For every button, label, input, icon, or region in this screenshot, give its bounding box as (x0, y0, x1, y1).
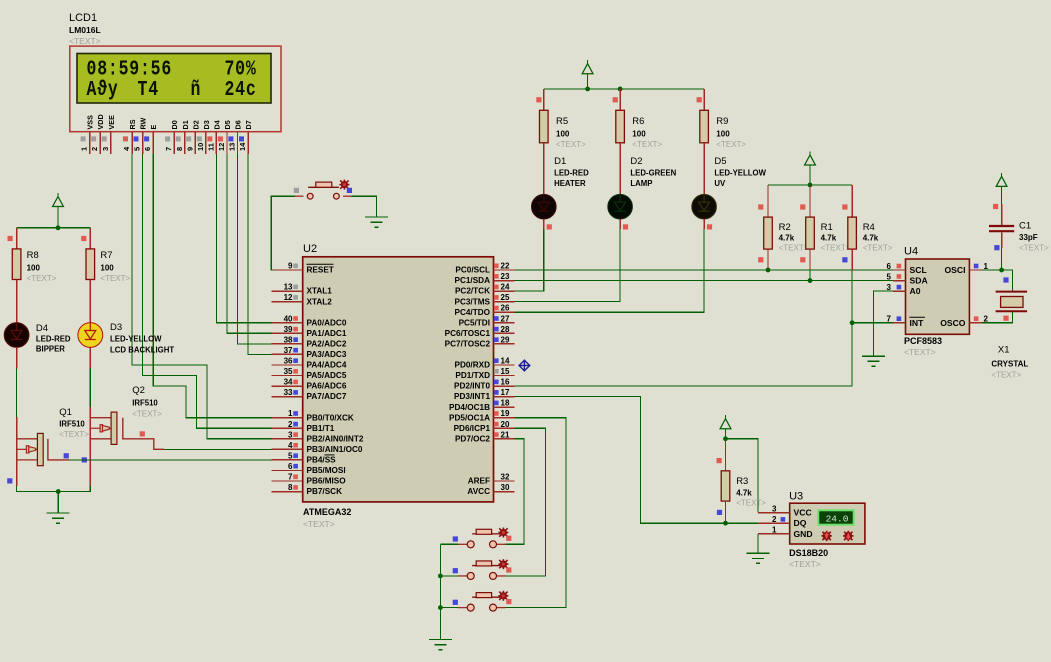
svg-text:R5: R5 (556, 116, 568, 127)
wire R2 rail (768, 184, 852, 186)
U3 up button (843, 531, 853, 541)
svg-text:39: 39 (284, 325, 293, 334)
wire D1 to U2 (515, 229, 544, 291)
svg-text:5: 5 (887, 272, 892, 281)
wire D2 to U2 (515, 229, 621, 302)
svg-text:<TEXT>: <TEXT> (556, 140, 586, 149)
U2 pin 2 PB1/T1 (272, 420, 335, 433)
svg-text:PC5/TDI: PC5/TDI (459, 318, 490, 327)
U3 DS18B20 body (790, 503, 865, 544)
U2 pin 16 PD2/INT0 (454, 378, 515, 391)
svg-text:AVCC: AVCC (467, 487, 490, 496)
resistor R5 (536, 89, 586, 164)
svg-text:R7: R7 (100, 250, 112, 261)
svg-text:U3: U3 (789, 491, 803, 503)
wire Q1/Q2 sources ground rail (17, 486, 91, 492)
svg-text:PC4/TDO: PC4/TDO (455, 308, 491, 317)
svg-text:IRF510: IRF510 (132, 399, 158, 408)
U4 pin 3 A0 (887, 283, 921, 296)
svg-text:A0: A0 (910, 286, 921, 296)
svg-text:40: 40 (284, 314, 293, 323)
wire top VCC rail (544, 88, 704, 90)
svg-text:PA2/ADC2: PA2/ADC2 (307, 339, 347, 348)
svg-text:HEATER: HEATER (554, 179, 586, 188)
resistor R7 (81, 228, 130, 301)
svg-text:D2: D2 (191, 120, 200, 129)
U2 pin 28 PC6/TOSC1 (445, 325, 515, 338)
wire C1 to OSCI node (1001, 248, 1003, 270)
svg-text:13: 13 (228, 143, 237, 151)
svg-text:PB4/SS: PB4/SS (307, 456, 337, 465)
wire button 3 left to common (440, 607, 458, 609)
svg-text:PB5/MOSI: PB5/MOSI (307, 466, 346, 475)
svg-text:BIPPER: BIPPER (36, 345, 65, 354)
svg-text:100: 100 (556, 130, 570, 139)
svg-text:LED-YELLOW: LED-YELLOW (110, 335, 162, 344)
svg-text:6: 6 (887, 262, 892, 271)
svg-text:PA6/ADC6: PA6/ADC6 (307, 382, 347, 391)
svg-text:PC0/SCL: PC0/SCL (455, 266, 490, 275)
svg-text:Aϑy: Aϑy (87, 77, 119, 102)
node rail junction at R6 (618, 87, 623, 92)
svg-text:24c: 24c (225, 77, 257, 102)
svg-text:4.7k: 4.7k (736, 489, 752, 498)
wire button 1 left to common (440, 543, 458, 545)
resistor R6 (613, 89, 663, 164)
svg-text:R9: R9 (716, 116, 728, 127)
LED D5 LED-YELLOW UV (692, 156, 767, 229)
svg-text:PD0/RXD: PD0/RXD (455, 361, 491, 370)
U3 pin 2 DQ (758, 515, 807, 528)
svg-text:SDA: SDA (910, 276, 928, 286)
svg-text:T4: T4 (138, 77, 159, 102)
svg-text:1: 1 (80, 147, 89, 151)
U2 pin 36 PA4/ADC4 (272, 356, 347, 369)
svg-text:<TEXT>: <TEXT> (779, 244, 809, 253)
svg-text:<TEXT>: <TEXT> (132, 410, 162, 419)
svg-text:LM016L: LM016L (69, 25, 101, 35)
svg-text:30: 30 (501, 483, 510, 492)
node Q1 gate marker (64, 453, 69, 458)
svg-text:PB3/AIN1/OC0: PB3/AIN1/OC0 (307, 445, 363, 454)
svg-text:27: 27 (501, 314, 510, 323)
svg-text:26: 26 (501, 304, 510, 313)
U2 pin 7 PB6/MISO (272, 473, 347, 486)
svg-text:12: 12 (217, 143, 226, 151)
svg-text:R6: R6 (632, 116, 644, 127)
svg-text:<TEXT>: <TEXT> (863, 244, 893, 253)
transistor Q1 IRF510 (17, 407, 90, 486)
U2 pin 13 XTAL1 (272, 283, 333, 296)
svg-text:D6: D6 (234, 120, 243, 129)
crystal X1 (991, 292, 1028, 380)
U4 pin 6 SCL (887, 262, 927, 275)
svg-text:16: 16 (501, 378, 510, 387)
U2 pin 29 PC7/TOSC2 (445, 335, 515, 348)
svg-text:6: 6 (288, 462, 293, 471)
svg-text:UV: UV (714, 179, 726, 188)
svg-text:PD3/INT1: PD3/INT1 (454, 392, 490, 401)
svg-text:R8: R8 (27, 250, 39, 261)
node buttons junction 3 (438, 605, 443, 610)
node reset button pin markers (294, 188, 299, 193)
U2 pin 30 AVCC (467, 483, 514, 496)
wire LCD RS (pin4) to U2 PB2 (132, 154, 271, 439)
svg-text:PA5/ADC5: PA5/ADC5 (307, 371, 347, 380)
U3 display 24.0 (817, 509, 854, 525)
node button 3 markers (453, 600, 458, 605)
svg-text:XTAL2: XTAL2 (307, 297, 333, 306)
resistor R1 (800, 185, 851, 281)
svg-text:10: 10 (196, 143, 205, 151)
transistor Q2 IRF510 (90, 385, 164, 486)
U2 pin 1 PB0/T0/XCK (272, 409, 354, 422)
LED D1 LED-RED HEATER (532, 156, 590, 229)
U2 pin 19 PD5/OC1A (449, 409, 515, 422)
U2 pin 18 PD4/OC1B (449, 399, 515, 412)
svg-text:8: 8 (288, 483, 293, 492)
U4 pin 5 SDA (887, 272, 928, 285)
node R3/DQ junction (723, 521, 728, 526)
svg-text:9: 9 (288, 262, 293, 271)
node INT junction (850, 320, 855, 325)
svg-text:PC7/TOSC2: PC7/TOSC2 (445, 339, 491, 348)
U2 pin 17 PD3/INT1 (454, 388, 515, 401)
svg-text:19: 19 (501, 409, 510, 418)
U4 pin 2 OSCO (940, 315, 988, 328)
U2 pin 35 PA5/ADC5 (272, 367, 347, 380)
svg-text:RESET: RESET (307, 266, 334, 275)
capacitor C1 33pF (989, 204, 1049, 253)
power VCC arrow (C1) (996, 173, 1007, 204)
node Q1 source marker (7, 478, 12, 483)
svg-text:VEE: VEE (107, 115, 116, 130)
U2 pin 27 PC5/TDI (459, 314, 515, 327)
node R2/SCL junction (766, 268, 771, 273)
ground (left rail) (47, 492, 70, 524)
LCD pin 13 D6 (228, 120, 243, 154)
svg-text:LAMP: LAMP (630, 179, 652, 188)
svg-text:R2: R2 (779, 222, 791, 233)
svg-text:D1: D1 (181, 120, 190, 129)
U2 pin 32 AREF (468, 473, 515, 486)
svg-text:<TEXT>: <TEXT> (632, 140, 662, 149)
svg-text:38: 38 (284, 335, 293, 344)
wire U4 INT to junction (852, 322, 893, 324)
wire button 2 to U2 pin (506, 428, 546, 576)
svg-text:SCL: SCL (910, 265, 927, 275)
svg-text:12: 12 (284, 293, 293, 302)
svg-text:PB1/T1: PB1/T1 (307, 424, 335, 433)
resistor R9 (697, 89, 747, 164)
svg-text:<TEXT>: <TEXT> (100, 274, 130, 283)
svg-text:GND: GND (794, 529, 813, 539)
svg-text:D5: D5 (223, 120, 232, 129)
LCD screen (77, 54, 271, 104)
node rail/arrow junction (56, 225, 61, 230)
U2 pin 3 PB2/AIN0/INT2 (272, 430, 364, 443)
power VCC arrow (left rail) (53, 193, 64, 228)
svg-text:LED-GREEN: LED-GREEN (630, 169, 676, 178)
svg-text:D7: D7 (244, 120, 253, 129)
svg-text:3: 3 (288, 430, 293, 439)
svg-text:LCD1: LCD1 (69, 12, 97, 24)
svg-text:23: 23 (501, 272, 510, 281)
LCD pin 12 D5 (217, 120, 232, 154)
svg-text:D5: D5 (714, 156, 726, 167)
svg-text:R4: R4 (863, 222, 875, 233)
LED D4 LED-RED BIPPER (4, 301, 71, 369)
svg-text:25: 25 (501, 293, 510, 302)
wire LCD RW (pin5) to U2 PB1 (143, 154, 272, 428)
svg-text:VCC: VCC (794, 508, 812, 518)
LCD pin 4 RS (122, 119, 137, 154)
svg-text:2: 2 (90, 147, 99, 151)
node crystal bottom marker (1003, 316, 1008, 321)
wire D5 to U2 (515, 229, 705, 312)
wire left VCC rail (17, 227, 91, 229)
svg-text:100: 100 (716, 130, 730, 139)
svg-text:D4: D4 (36, 323, 48, 334)
svg-text:29: 29 (501, 335, 510, 344)
svg-text:ñ: ñ (191, 77, 202, 102)
U2 pin 12 XTAL2 (272, 293, 333, 306)
svg-text:3: 3 (772, 504, 777, 513)
svg-text:7: 7 (164, 147, 173, 151)
svg-text:32: 32 (501, 473, 510, 482)
origin marker (519, 360, 531, 372)
svg-text:RS: RS (128, 119, 137, 129)
LED D2 LED-GREEN LAMP (608, 156, 677, 229)
U4 pin 7 INT (887, 315, 925, 328)
svg-text:PB0/T0/XCK: PB0/T0/XCK (307, 413, 354, 422)
svg-text:36: 36 (284, 356, 293, 365)
node Q2 source marker (82, 457, 87, 462)
svg-text:<TEXT>: <TEXT> (736, 499, 766, 508)
node buttons junction 2 (438, 574, 443, 579)
svg-text:PC3/TMS: PC3/TMS (455, 297, 491, 306)
svg-text:VSS: VSS (86, 115, 95, 130)
svg-text:3: 3 (101, 147, 110, 151)
U2 pin 38 PA2/ADC2 (272, 335, 347, 348)
svg-text:E: E (149, 125, 158, 130)
svg-text:D2: D2 (630, 156, 642, 167)
resistor R4 (842, 185, 893, 323)
push button 1 (458, 528, 508, 548)
U2 pin 8 PB7/SCK (272, 483, 343, 496)
svg-text:D1: D1 (554, 156, 566, 167)
node rail junction at arrow (585, 87, 590, 92)
svg-text:15: 15 (501, 367, 510, 376)
svg-text:<TEXT>: <TEXT> (27, 274, 57, 283)
U2 pin 25 PC3/TMS (455, 293, 515, 306)
U3 down button (821, 531, 831, 541)
svg-text:PB7/SCK: PB7/SCK (307, 487, 343, 496)
wire U4 A0 to ground (874, 291, 893, 356)
push button 2 (458, 559, 508, 579)
svg-text:PC2/TCK: PC2/TCK (455, 287, 490, 296)
svg-text:OSCO: OSCO (940, 318, 966, 328)
svg-text:DS18B20: DS18B20 (789, 548, 828, 558)
U2 pin 9 RESET (272, 262, 334, 275)
svg-text:PC1/SDA: PC1/SDA (455, 276, 491, 285)
LCD pin 14 D7 (238, 120, 253, 154)
svg-text:LCD BACKLIGHT: LCD BACKLIGHT (110, 346, 174, 355)
LED D3 LED-YELLOW LCD BACKLIGHT (78, 301, 174, 369)
U2 pin 6 PB5/MOSI (272, 462, 346, 475)
power VCC arrow (U3) (720, 415, 731, 439)
svg-text:<TEXT>: <TEXT> (1019, 244, 1049, 253)
wire U3 GND to ground (757, 534, 759, 553)
svg-text:PC6/TOSC1: PC6/TOSC1 (445, 329, 491, 338)
node R1/SDA junction (808, 278, 813, 283)
svg-text:LED-YELLOW: LED-YELLOW (714, 169, 766, 178)
svg-text:RW: RW (139, 117, 148, 129)
wire U2 PC0/SCL to U4 SCL (515, 269, 893, 271)
wire button 2 left to common (440, 575, 458, 577)
svg-text:35: 35 (284, 367, 293, 376)
wire U2 PD2/INT0 to INT junction (515, 323, 853, 386)
U2 pin 34 PA6/ADC6 (272, 378, 347, 391)
LCD pin 11 D4 (206, 120, 221, 154)
resistor R2 (758, 185, 809, 270)
wire OSCI node to crystal (982, 270, 1013, 291)
wire crystal to OSCO (982, 312, 1013, 323)
svg-text:<TEXT>: <TEXT> (991, 371, 1021, 380)
wire U2 PC1/SDA to U4 SDA (515, 280, 893, 282)
LCD pin 1 VSS (80, 115, 95, 154)
U2 pin 24 PC2/TCK (455, 283, 515, 296)
svg-text:5: 5 (133, 147, 142, 151)
svg-text:VDD: VDD (96, 114, 105, 129)
svg-text:LED-RED: LED-RED (554, 169, 589, 178)
svg-text:6: 6 (143, 147, 152, 151)
LCD pin 5 RW (133, 117, 148, 153)
svg-text:11: 11 (206, 143, 215, 151)
power VCC arrow (R2 rail) (805, 152, 816, 185)
svg-text:<TEXT>: <TEXT> (69, 36, 101, 46)
U2 pin 23 PC1/SDA (455, 272, 515, 285)
svg-text:X1: X1 (998, 345, 1010, 356)
svg-text:D0: D0 (170, 120, 179, 129)
svg-text:13: 13 (284, 283, 293, 292)
svg-text:D4: D4 (212, 120, 221, 129)
LCD pin 9 D2 (185, 120, 200, 154)
LCD pin 6 E (143, 125, 158, 154)
node C1 pin markers (993, 204, 998, 209)
svg-text:XTAL1: XTAL1 (307, 287, 333, 296)
wire reset button to U2 RESET (271, 196, 295, 270)
svg-text:4.7k: 4.7k (779, 234, 795, 243)
svg-text:<TEXT>: <TEXT> (789, 559, 821, 569)
svg-text:PB2/AIN0/INT2: PB2/AIN0/INT2 (307, 434, 364, 443)
node U3 DQ pin marker (781, 517, 786, 522)
svg-text:PA1/ADC1: PA1/ADC1 (307, 329, 347, 338)
wire button 1 to U2 pin (506, 439, 524, 545)
svg-text:2: 2 (772, 515, 777, 524)
wire LCD D5 (pin12) to U2 PA1 (227, 154, 272, 333)
svg-text:21: 21 (501, 430, 510, 439)
svg-text:PA7/ADC7: PA7/ADC7 (307, 392, 347, 401)
svg-text:C1: C1 (1019, 221, 1031, 232)
node D2 cathode marker (623, 224, 628, 229)
svg-text:<TEXT>: <TEXT> (59, 430, 89, 439)
svg-text:PA4/ADC4: PA4/ADC4 (307, 361, 347, 370)
svg-text:24: 24 (501, 283, 510, 292)
wire Q1 gate to U2 PB4 (69, 459, 272, 461)
LCD text line 1 (87, 57, 257, 102)
svg-text:33: 33 (284, 388, 293, 397)
svg-text:20: 20 (501, 420, 510, 429)
resistor R3 (717, 439, 767, 523)
svg-text:1: 1 (772, 526, 777, 535)
svg-text:ATMEGA32: ATMEGA32 (303, 507, 351, 517)
U2 pin 26 PC4/TDO (455, 304, 515, 317)
wire LCD D4 (pin11) to U2 PA0 (216, 154, 271, 323)
svg-text:PA3/ADC3: PA3/ADC3 (307, 350, 347, 359)
wire U2 PD3/INT1 to U3 DQ (515, 397, 758, 524)
power VCC arrow (top rail) (582, 60, 593, 89)
svg-text:5: 5 (288, 451, 293, 460)
wire Q2 gate to U2 PB3 (164, 448, 272, 450)
U2 pin 21 PD7/OC2 (455, 430, 515, 443)
U2 pin 22 PC0/SCL (455, 262, 514, 275)
svg-text:PD5/OC1A: PD5/OC1A (449, 413, 490, 422)
svg-text:PCF8583: PCF8583 (904, 336, 942, 346)
svg-text:14: 14 (238, 142, 247, 151)
svg-text:24.0: 24.0 (826, 513, 849, 524)
svg-text:CRYSTAL: CRYSTAL (991, 360, 1028, 369)
node D1 cathode marker (547, 224, 552, 229)
svg-text:<TEXT>: <TEXT> (303, 519, 335, 529)
svg-text:PD7/OC2: PD7/OC2 (455, 434, 490, 443)
svg-text:OSCI: OSCI (944, 265, 965, 275)
wire button 3 to U2 pin (506, 418, 567, 608)
svg-text:PD4/OC1B: PD4/OC1B (449, 403, 490, 412)
svg-text:37: 37 (284, 346, 293, 355)
U2 pin 14 PD0/RXD (455, 356, 515, 369)
ground (U4 A0) (862, 356, 885, 366)
svg-text:7: 7 (288, 473, 293, 482)
svg-text:33pF: 33pF (1019, 233, 1038, 242)
ground (U3) (746, 553, 769, 563)
node rail junction at arrow (808, 183, 813, 188)
svg-text:8: 8 (175, 147, 184, 151)
wire D3 to Q2 drain (89, 369, 91, 408)
U2 pin 15 PD1/TXD (455, 367, 514, 380)
node crystal top marker (1003, 277, 1008, 282)
wire VCC to U3 VCC (726, 439, 758, 513)
svg-text:Q2: Q2 (132, 385, 145, 396)
push button (reset) (295, 180, 352, 200)
wire reset button to ground (352, 196, 377, 217)
svg-text:4.7k: 4.7k (821, 234, 837, 243)
LCD pin 10 D3 (196, 120, 211, 154)
svg-text:14: 14 (501, 356, 510, 365)
LCD pin 3 VEE (101, 115, 116, 154)
wire D4 to Q1 drain (16, 369, 18, 418)
svg-text:2: 2 (288, 420, 293, 429)
svg-text:D3: D3 (110, 322, 122, 333)
ground (reset) (365, 217, 388, 227)
node R3 top junction (723, 436, 728, 441)
svg-text:34: 34 (284, 378, 293, 387)
svg-text:DQ: DQ (794, 518, 807, 528)
ground (buttons) (429, 640, 452, 650)
node OSCI junction (999, 268, 1004, 273)
push button 3 (458, 591, 508, 611)
LCD LCD1 body (70, 46, 281, 132)
